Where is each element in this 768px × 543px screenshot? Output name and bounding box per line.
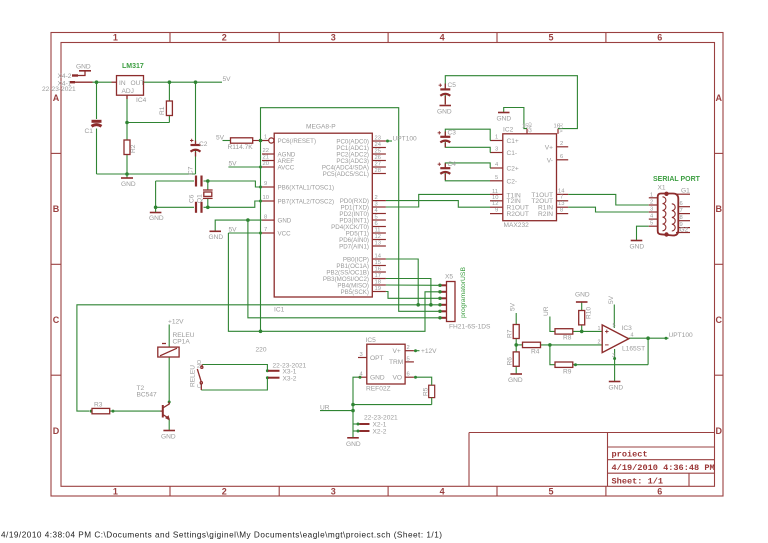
pin 1 PC6/RESET stub xyxy=(262,140,269,142)
switch S1 contact C xyxy=(200,382,202,384)
C3 top lead xyxy=(444,132,446,137)
pin X3-1 stub xyxy=(268,370,280,372)
svg-text:GND: GND xyxy=(497,116,512,123)
svg-text:28: 28 xyxy=(375,168,381,174)
frame column tick 4-5 bottom xyxy=(496,486,498,496)
capacitor C3 plate top xyxy=(440,136,450,138)
pin 2 PD0 stub xyxy=(372,200,386,202)
junction Q1 bottom xyxy=(206,206,210,210)
wire PD1 to R1OUT xyxy=(386,194,490,207)
ground symbol crystal xyxy=(150,212,162,214)
svg-text:6: 6 xyxy=(680,201,683,207)
X1 pin 9 stub xyxy=(678,227,691,229)
frame column tick 5-6 top xyxy=(605,33,607,43)
svg-text:X3-1: X3-1 xyxy=(283,368,297,375)
svg-text:Q1: Q1 xyxy=(197,194,204,203)
frame column tick 3-4 top xyxy=(387,33,389,43)
frame row tick A-B left xyxy=(51,152,61,154)
wire C4 bottom to pin5 xyxy=(445,173,490,181)
junction UR node xyxy=(351,409,355,413)
frame column tick 2-3 bottom xyxy=(278,486,280,496)
pin arrow collector xyxy=(168,401,171,404)
svg-text:2: 2 xyxy=(650,200,653,206)
capacitor C5 plate top xyxy=(440,88,450,90)
svg-text:22-23-2021: 22-23-2021 xyxy=(364,415,398,422)
svg-text:9: 9 xyxy=(680,222,683,228)
svg-text:4/19/2010 4:38:04 PM C:\Docum: 4/19/2010 4:38:04 PM C:\Documents and Se… xyxy=(1,531,442,540)
wire pin23 UPT100 xyxy=(386,140,392,142)
svg-text:22-23-2021: 22-23-2021 xyxy=(42,86,76,93)
svg-text:5V: 5V xyxy=(223,76,232,83)
svg-text:X5: X5 xyxy=(445,274,453,281)
resistor R10 xyxy=(579,311,585,325)
crystal Q1 body xyxy=(204,192,212,196)
capacitor C7 plate right xyxy=(200,176,202,187)
connector X5 body xyxy=(447,282,456,322)
pin 5 C2- stub xyxy=(490,180,503,182)
C5 top lead xyxy=(444,84,446,90)
svg-text:REF02Z: REF02Z xyxy=(366,386,391,393)
svg-text:IC4: IC4 xyxy=(136,97,147,104)
LM317 ADJ pin stub xyxy=(126,95,128,99)
svg-text:C4: C4 xyxy=(448,161,457,168)
LM317 IN pin stub xyxy=(112,81,117,83)
wire T1OUT to X1 pin2 xyxy=(568,194,649,205)
X5 pin 4 stub xyxy=(438,304,446,306)
wire R3 to base xyxy=(110,410,161,412)
junction PB0 riser on relay wire xyxy=(416,303,420,307)
capacitor C4 plate top xyxy=(440,167,450,169)
svg-text:X2-2: X2-2 xyxy=(373,429,387,436)
transistor T2 emitter arrow xyxy=(166,416,169,419)
junction X4-1 node xyxy=(95,80,99,84)
C3 plus sign xyxy=(438,131,441,134)
wire R11 to pin1 xyxy=(253,140,262,142)
svg-text:UR: UR xyxy=(543,306,550,316)
pin arrow avcc xyxy=(259,166,262,169)
opamp plus sign input xyxy=(605,330,609,334)
svg-text:IC3: IC3 xyxy=(622,325,633,332)
pin 5 PD3 stub xyxy=(372,219,386,221)
frame column tick 1-2 bottom xyxy=(169,486,171,496)
svg-text:12: 12 xyxy=(492,201,498,207)
svg-text:1: 1 xyxy=(113,33,118,43)
wire R5 bottom to rail xyxy=(431,398,433,405)
pin 4 PD2 stub xyxy=(372,213,386,215)
wire PB3 riser xyxy=(386,279,431,305)
wire R10 top to gnd xyxy=(581,302,583,311)
pin arrow R3 right xyxy=(112,410,115,413)
C5 bottom lead xyxy=(444,96,446,105)
pin arrow output xyxy=(665,337,668,340)
svg-text:UR: UR xyxy=(320,404,330,411)
svg-text:2: 2 xyxy=(560,141,563,147)
wire 5V label to R11 xyxy=(223,140,231,142)
wire gnd rail to C2 riser xyxy=(195,173,197,175)
wire C5 bottom to gnd xyxy=(444,94,446,105)
svg-text:6: 6 xyxy=(375,221,378,227)
svg-text:5: 5 xyxy=(375,214,378,220)
svg-text:RELEU: RELEU xyxy=(190,365,197,387)
wire XTAL1 route xyxy=(208,181,262,187)
wire C7 left xyxy=(156,180,194,182)
svg-text:B: B xyxy=(715,204,722,214)
frame row tick C-D right xyxy=(715,374,724,376)
pin 17 PB3 stub xyxy=(372,278,386,280)
capacitor C1 plate top xyxy=(92,120,102,123)
svg-text:21: 21 xyxy=(263,155,269,161)
junction reset node xyxy=(259,139,263,143)
frame column tick 2-3 top xyxy=(278,33,280,43)
wire X1 pin5 to gnd xyxy=(637,226,649,240)
pin X4-2 stub xyxy=(72,74,78,76)
wire C7 right to junction xyxy=(204,180,208,182)
svg-text:GND: GND xyxy=(161,434,176,441)
pin arrow X3-2 xyxy=(266,376,269,379)
svg-text:6: 6 xyxy=(407,372,410,378)
pin 3 OPT stub xyxy=(358,357,367,359)
svg-text:VCC: VCC xyxy=(278,230,292,237)
X5 pin 1 stub xyxy=(438,284,446,286)
wire R2 bottom to gnd xyxy=(126,155,128,179)
svg-text:4/19/2010 4:36:48 PM: 4/19/2010 4:36:48 PM xyxy=(612,463,715,473)
svg-text:PC5(ADC5/SCL): PC5(ADC5/SCL) xyxy=(323,171,369,178)
svg-text:V+: V+ xyxy=(545,144,553,151)
pin arrow vcc xyxy=(259,232,262,235)
wire feedback riser xyxy=(647,338,649,365)
svg-text:GND: GND xyxy=(149,215,164,222)
wire reset riser down xyxy=(260,141,262,332)
ground symbol opamp V- xyxy=(609,381,621,383)
pin X4-1 stub wire xyxy=(70,81,93,83)
svg-text:3: 3 xyxy=(612,353,615,359)
svg-text:R1: R1 xyxy=(159,106,166,115)
svg-text:X4-2: X4-2 xyxy=(58,73,72,80)
ground symbol T2 xyxy=(163,430,175,432)
svg-text:1: 1 xyxy=(113,487,118,497)
wire switch C to X3-2 xyxy=(201,378,268,390)
svg-text:10: 10 xyxy=(263,195,269,201)
pin 1 inversion bubble xyxy=(269,138,274,143)
svg-text:2: 2 xyxy=(222,33,227,43)
svg-text:C1-: C1- xyxy=(507,150,518,157)
svg-text:2: 2 xyxy=(375,195,378,201)
wire C5 to pin16 xyxy=(445,76,577,129)
opamp IC3 triangle xyxy=(602,325,629,353)
pin 4 C2+ stub xyxy=(490,167,503,169)
pin 3 PD1 stub xyxy=(372,206,386,208)
svg-text:R5: R5 xyxy=(423,387,430,396)
svg-text:R2OUT: R2OUT xyxy=(507,211,529,218)
svg-text:G1: G1 xyxy=(681,188,690,195)
svg-text:C1: C1 xyxy=(85,128,94,135)
svg-text:IC1: IC1 xyxy=(274,307,285,314)
pin arrow X2-2 xyxy=(357,430,360,433)
svg-text:5V: 5V xyxy=(510,302,517,311)
pin 10 T2IN stub xyxy=(490,200,503,202)
svg-text:5: 5 xyxy=(495,175,498,181)
frame row tick A-B right xyxy=(715,152,724,154)
junction divider node xyxy=(514,343,518,347)
gnd rail horizontal xyxy=(97,173,196,175)
wire PB4 to X5 pin1 xyxy=(386,284,438,286)
svg-text:1: 1 xyxy=(495,135,498,141)
svg-text:3: 3 xyxy=(375,201,378,207)
X1 G1 stub xyxy=(676,193,690,195)
wire R7 to divider node xyxy=(515,339,517,345)
wire divider node to R6 xyxy=(515,345,517,352)
svg-text:4: 4 xyxy=(440,487,445,497)
pin X4-1 tick xyxy=(70,81,75,83)
ic IC2 MAX232 body xyxy=(503,134,557,221)
wire C6 left xyxy=(156,206,194,208)
junction C2 top xyxy=(194,80,198,84)
C4 top lead xyxy=(444,163,446,168)
junction gnd riser start xyxy=(246,218,250,222)
svg-text:GND: GND xyxy=(528,122,533,133)
wire C6 right to junction xyxy=(204,206,208,208)
svg-text:MEGA8-P: MEGA8-P xyxy=(306,124,336,131)
svg-text:programatorUSB: programatorUSB xyxy=(460,267,467,318)
crystal Q1 plate top xyxy=(203,189,213,191)
pin 21 AREF stub xyxy=(262,160,274,162)
pin arrow R3 left xyxy=(90,410,93,413)
ground symbol R10 xyxy=(576,301,588,303)
svg-text:PB7(XTAL2/TOSC2): PB7(XTAL2/TOSC2) xyxy=(278,198,335,205)
frame column tick 3-4 bottom xyxy=(387,486,389,496)
pin 27 PC4 stub xyxy=(372,166,386,168)
svg-text:ADJ: ADJ xyxy=(122,88,134,95)
capacitor C2 arc plate xyxy=(191,150,201,152)
wire C2 top xyxy=(195,82,197,143)
svg-text:5: 5 xyxy=(548,33,553,43)
relay K1 coil box xyxy=(158,347,179,357)
wire R2 top xyxy=(126,123,128,141)
wire emitter to gnd xyxy=(168,419,170,431)
pin arrow vminus xyxy=(613,357,616,360)
svg-text:D: D xyxy=(53,426,60,436)
svg-text:C2-: C2- xyxy=(507,178,518,185)
svg-text:27: 27 xyxy=(375,161,381,167)
svg-text:3: 3 xyxy=(495,147,498,153)
svg-text:13: 13 xyxy=(375,240,381,246)
ground symbol C5 xyxy=(440,105,452,107)
wire switch NO to X3-1 xyxy=(202,365,268,371)
C5 plus sign xyxy=(439,84,442,87)
pin 6 PD4 stub xyxy=(372,226,386,228)
wire +12V to relay coil xyxy=(168,325,170,348)
ground symbol X2 xyxy=(347,437,359,439)
svg-text:4: 4 xyxy=(631,333,634,339)
X1 pin 2 stub xyxy=(649,204,659,206)
svg-text:14: 14 xyxy=(375,253,382,259)
X1 G2 stub xyxy=(676,232,690,234)
pin X3-2 stub xyxy=(268,377,280,379)
X1 pin 7 stub xyxy=(678,213,691,215)
regulator IC4 LM317 body xyxy=(117,76,144,96)
svg-text:proiect: proiect xyxy=(612,450,648,460)
svg-text:R8: R8 xyxy=(563,335,572,342)
pin 13 PD7 stub xyxy=(372,245,386,247)
wire R10 bottom xyxy=(581,325,583,332)
ground symbol pin8 xyxy=(210,230,222,232)
junction inverting node xyxy=(548,343,552,347)
X5 pin 3 stub xyxy=(438,297,446,299)
transistor T2 base lead xyxy=(161,410,163,412)
wire C4 top to pin4 xyxy=(445,163,490,168)
svg-text:1: 1 xyxy=(264,135,267,141)
svg-text:C3: C3 xyxy=(448,130,457,137)
frame row tick B-C left xyxy=(51,263,61,265)
C4 bottom lead xyxy=(444,174,446,180)
pin 8 R2IN stub xyxy=(557,213,569,215)
pin 6 VO stub xyxy=(405,376,414,378)
svg-text:C1+: C1+ xyxy=(507,138,519,145)
wire 5V to R7 xyxy=(515,313,517,325)
svg-text:+12V: +12V xyxy=(421,348,437,355)
wire to X2-1 xyxy=(353,423,360,425)
svg-text:8: 8 xyxy=(264,214,267,220)
capacitor C6 plate left xyxy=(195,202,197,213)
wire 5V riser xyxy=(228,233,438,331)
svg-text:26: 26 xyxy=(375,155,381,161)
wire V+ to +12V label xyxy=(414,350,420,352)
svg-text:IC2: IC2 xyxy=(503,127,514,134)
wire C5 top xyxy=(444,81,446,89)
svg-text:3: 3 xyxy=(331,487,336,497)
X1 bottom mounting dot xyxy=(664,232,668,236)
C2 plus sign xyxy=(190,139,193,142)
svg-text:C: C xyxy=(197,384,203,388)
wire XTAL2 route xyxy=(208,201,262,207)
pin X2-2 stub xyxy=(360,430,370,432)
svg-text:PC6(/RESET): PC6(/RESET) xyxy=(278,138,317,145)
switch S1 contact NO xyxy=(201,366,203,368)
svg-text:BC547: BC547 xyxy=(137,392,157,399)
C2 bottom lead xyxy=(195,152,197,157)
svg-text:D: D xyxy=(715,426,722,436)
wire gnd riser xyxy=(248,220,438,318)
pin 14 PB0 stub xyxy=(372,258,386,260)
svg-text:R6: R6 xyxy=(507,357,514,366)
wire C1 vertical top xyxy=(96,82,98,119)
pin 24 PC1 stub xyxy=(372,147,386,149)
pin 13 R1IN stub xyxy=(557,206,569,208)
svg-text:PB5(SCK): PB5(SCK) xyxy=(340,289,369,296)
pin 8 GND stub xyxy=(262,219,274,221)
pin 28 PC5 stub xyxy=(372,173,386,175)
pin arrow X5 pin6 xyxy=(438,316,441,319)
resistor R7 xyxy=(513,325,519,339)
pin 7 VCC stub xyxy=(262,232,274,234)
svg-text:23: 23 xyxy=(375,135,381,141)
wire R6 to gnd xyxy=(515,366,517,374)
transistor T2 emitter xyxy=(163,415,169,419)
frame column tick 5-6 bottom xyxy=(605,486,607,496)
svg-text:GND: GND xyxy=(575,292,590,299)
connector X1 DB9 body xyxy=(658,194,679,236)
wire UR stub xyxy=(320,410,353,412)
pin 12 R1OUT stub xyxy=(490,206,503,208)
svg-text:GND: GND xyxy=(209,234,224,241)
wire GND pin down xyxy=(353,377,358,431)
svg-text:1: 1 xyxy=(598,326,601,332)
svg-text:C: C xyxy=(715,315,722,325)
resistor R6 xyxy=(513,352,519,366)
svg-text:C2+: C2+ xyxy=(507,166,519,173)
ground symbol pin15 xyxy=(498,112,510,114)
resistor R5 xyxy=(429,385,435,397)
wire 5V rail X4-1 to LM317 IN xyxy=(93,81,112,83)
svg-text:220: 220 xyxy=(256,347,267,354)
capacitor C3 arc plate xyxy=(440,141,450,143)
wire PB0 riser xyxy=(386,259,418,305)
pin 26 PC3 stub xyxy=(372,160,386,162)
svg-text:L165ST: L165ST xyxy=(622,346,645,353)
title block outline xyxy=(469,433,715,487)
wire base long route to X5 pin4 xyxy=(77,305,438,411)
X1 pin 6 stub xyxy=(678,206,691,208)
capacitor C7 plate left xyxy=(195,176,197,187)
junction R10 plus node xyxy=(580,330,584,334)
pin 11 PD5 stub xyxy=(372,232,386,234)
svg-text:PD7(AIN1): PD7(AIN1) xyxy=(339,243,369,250)
pin 15 PB1 stub xyxy=(372,265,386,267)
svg-text:5V: 5V xyxy=(608,295,615,304)
wire crystal gnd drop xyxy=(155,207,157,212)
opamp minus sign input xyxy=(605,344,609,346)
svg-text:GND: GND xyxy=(508,377,523,384)
C4 plus sign xyxy=(438,163,441,166)
svg-text:5: 5 xyxy=(650,221,653,227)
pin 1 C1+ stub xyxy=(490,140,503,142)
svg-text:17: 17 xyxy=(375,273,381,279)
svg-text:B: B xyxy=(53,204,60,214)
svg-text:GND: GND xyxy=(76,64,91,71)
svg-text:8: 8 xyxy=(560,208,563,214)
wire C1 bottom to gnd rail xyxy=(96,129,98,175)
svg-text:UPT100: UPT100 xyxy=(393,135,418,142)
pin 15 GND stub top xyxy=(526,129,528,134)
svg-text:C7: C7 xyxy=(188,166,195,175)
pin 2 V+ stub xyxy=(557,146,569,148)
svg-text:R2: R2 xyxy=(130,144,137,153)
pin arrow X2-1 xyxy=(357,423,360,426)
svg-text:22: 22 xyxy=(263,148,269,154)
wire relay coil to collector xyxy=(168,357,170,404)
X1 top mounting dot xyxy=(664,192,668,196)
wire X4-2 to gnd symbol xyxy=(78,71,85,76)
svg-text:4: 4 xyxy=(495,162,499,168)
svg-text:16: 16 xyxy=(375,266,381,272)
crystal Q1 plate bottom xyxy=(203,197,213,199)
wire X2 gnd drop xyxy=(352,431,354,437)
svg-text:NO: NO xyxy=(197,360,203,368)
pin 16 VCC stub top xyxy=(557,129,559,134)
svg-text:12: 12 xyxy=(375,234,381,240)
svg-text:V+: V+ xyxy=(393,348,401,355)
capacitor C6 plate right xyxy=(200,202,202,213)
pin arrow pc0 xyxy=(386,140,389,143)
ground symbol R6 xyxy=(510,373,522,375)
frame inner border xyxy=(61,43,715,487)
svg-text:CP1A: CP1A xyxy=(173,339,191,346)
junction PB3 riser on relay wire xyxy=(429,303,433,307)
svg-text:X2-1: X2-1 xyxy=(373,422,387,429)
svg-text:R114.7K: R114.7K xyxy=(228,144,254,151)
pin arrow R9 right xyxy=(574,363,577,366)
resistor R3 xyxy=(92,408,110,413)
